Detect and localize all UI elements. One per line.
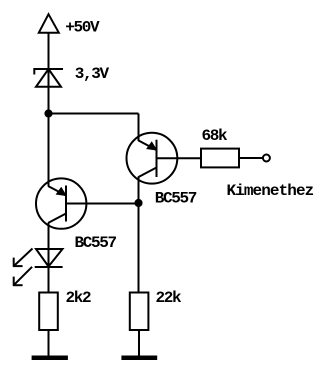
svg-text:2k2: 2k2: [66, 289, 92, 307]
svg-text:Kimenethez: Kimenethez: [227, 182, 314, 200]
svg-text:3,3V: 3,3V: [75, 65, 110, 83]
svg-text:BC557: BC557: [155, 189, 197, 207]
svg-text:+50V: +50V: [65, 19, 100, 37]
svg-text:68k: 68k: [202, 127, 229, 145]
svg-text:22k: 22k: [156, 289, 183, 307]
svg-text:BC557: BC557: [75, 234, 117, 252]
